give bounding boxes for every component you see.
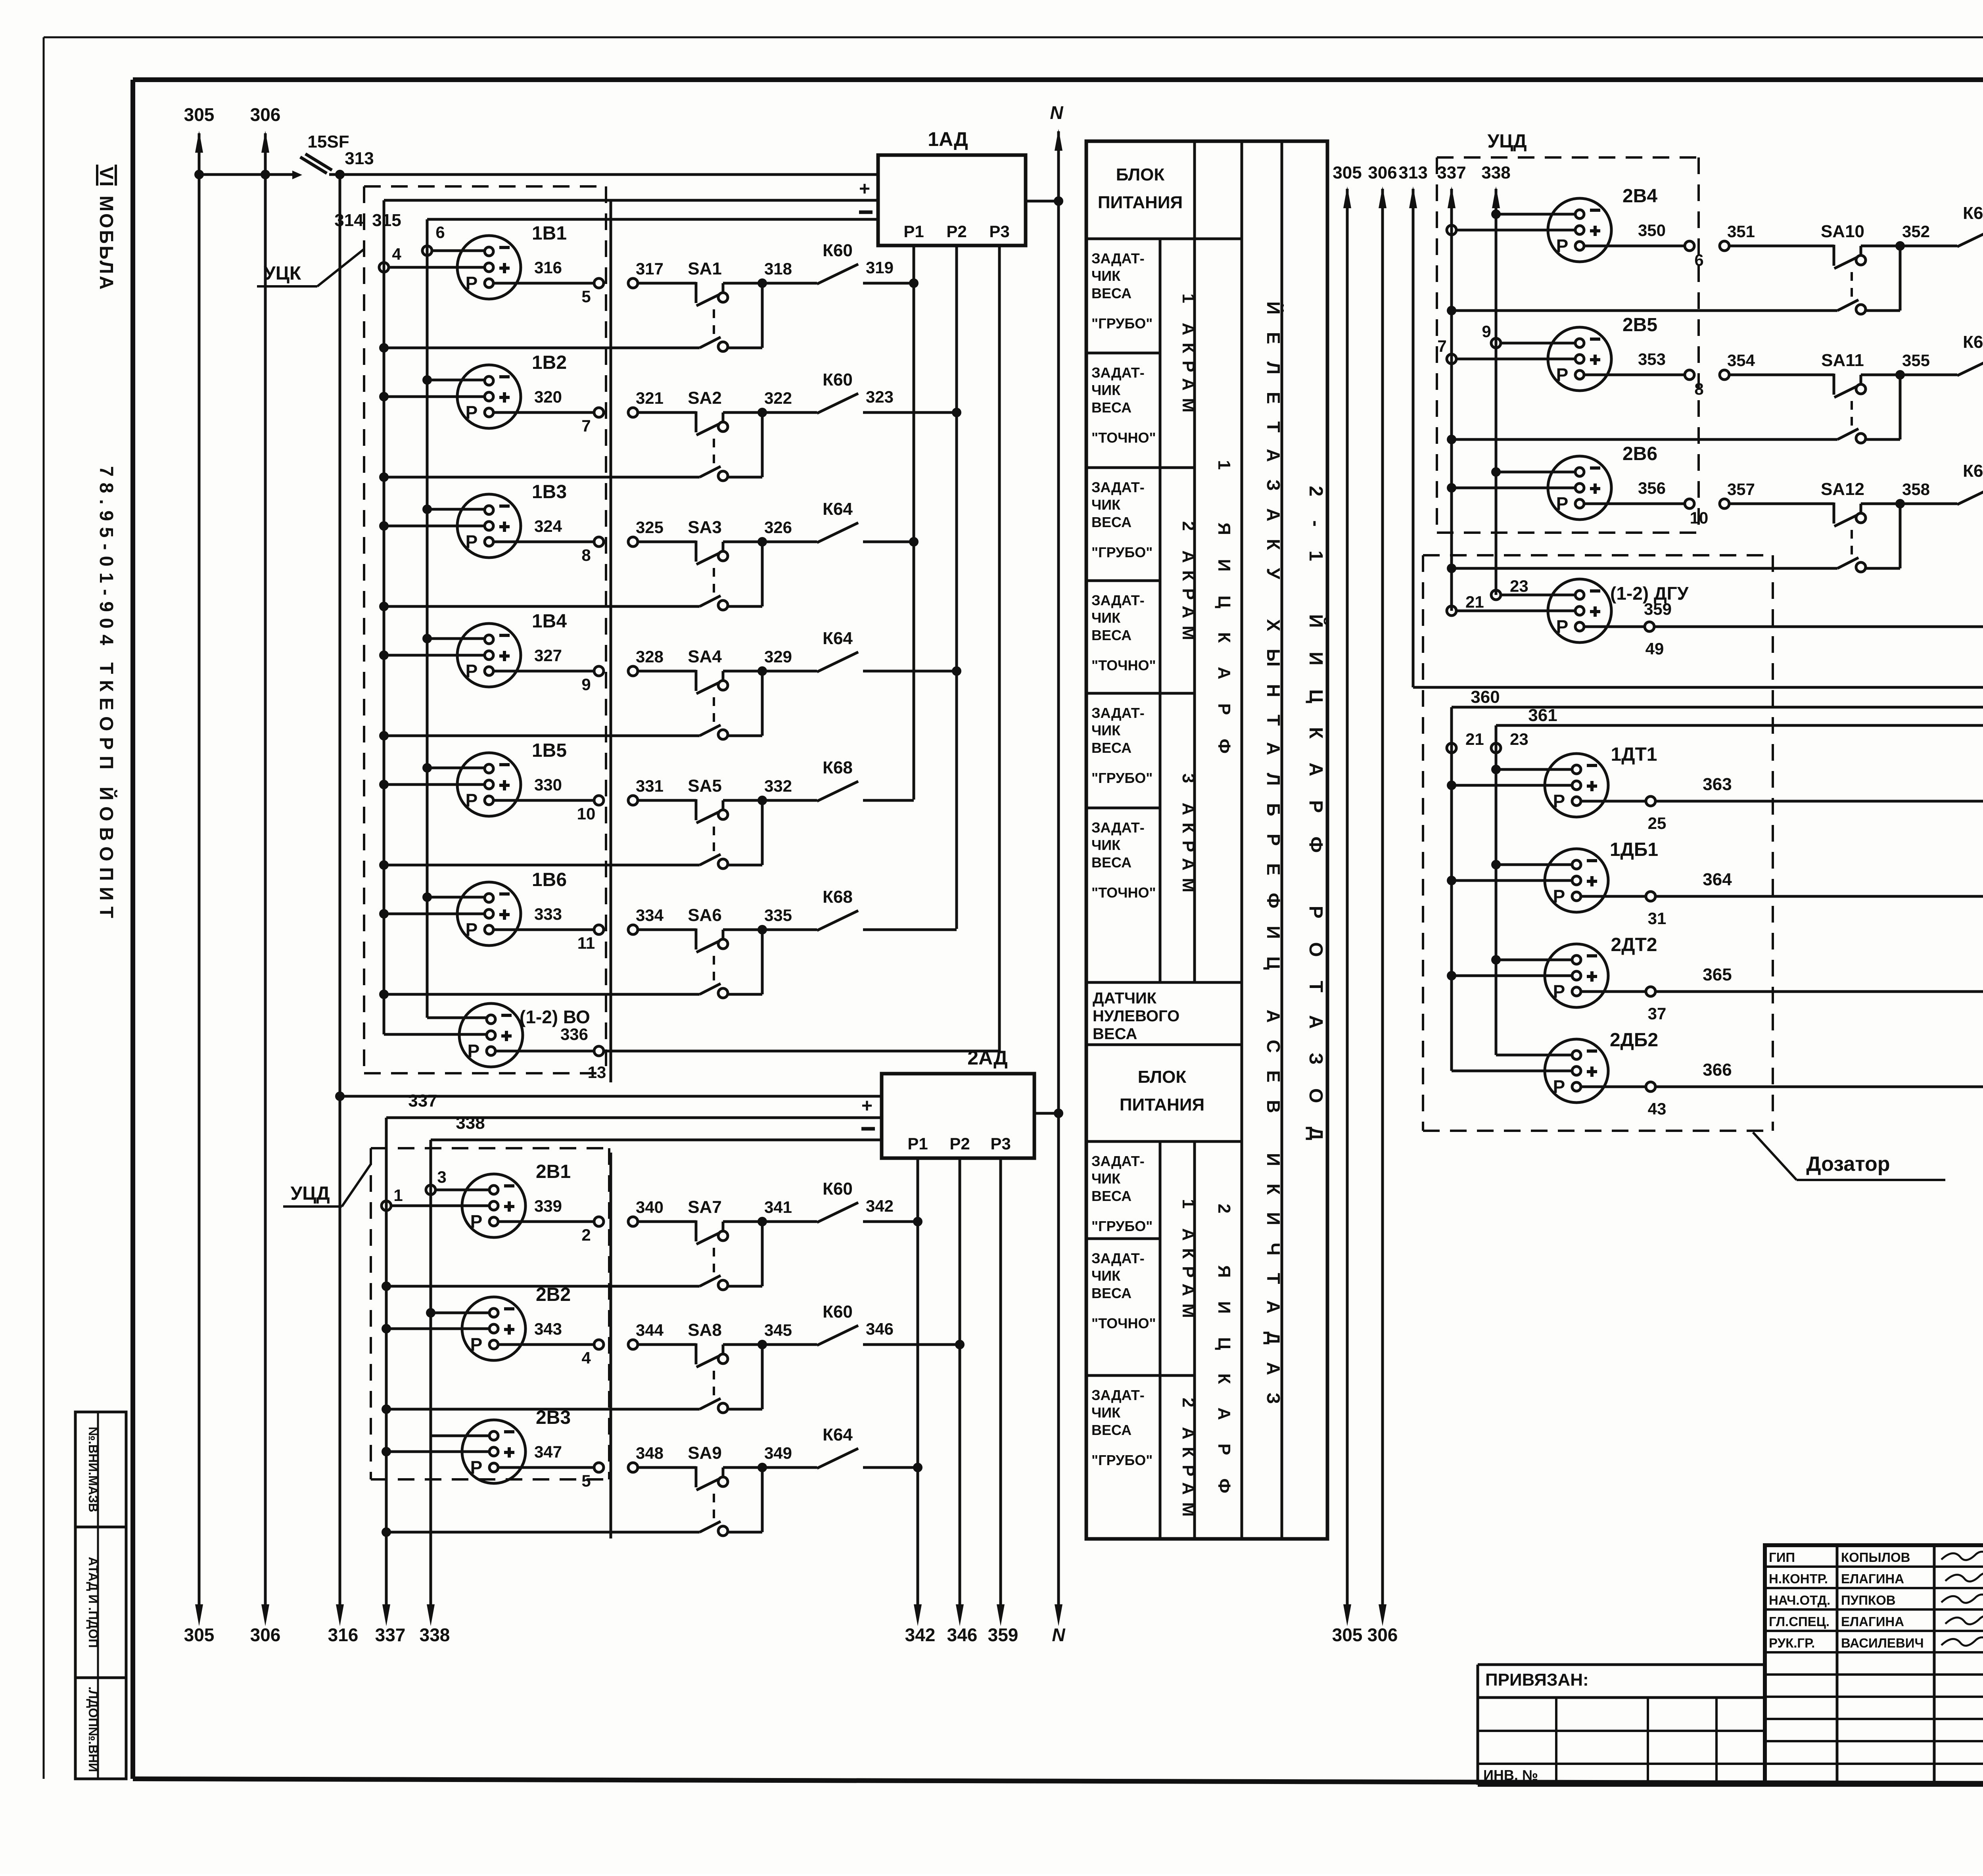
svg-text:306: 306 (1368, 163, 1397, 182)
svg-text:49: 49 (1645, 639, 1664, 658)
svg-text:ВЕСА: ВЕСА (1091, 1422, 1131, 1438)
svg-text:341: 341 (764, 1198, 792, 1216)
svg-text:РУК.ГР.: РУК.ГР. (1769, 1636, 1815, 1650)
svg-text:305: 305 (184, 104, 215, 125)
svg-text:ВЕСА: ВЕСА (1091, 854, 1131, 871)
svg-text:360: 360 (1471, 687, 1500, 707)
svg-text:ЧИК: ЧИК (1091, 1170, 1121, 1187)
svg-text:337: 337 (375, 1625, 406, 1645)
svg-text:ЧИК: ЧИК (1091, 837, 1121, 853)
svg-text:P1: P1 (903, 222, 924, 241)
svg-text:P: P (1553, 791, 1565, 811)
svg-text:354: 354 (1727, 351, 1755, 370)
svg-text:2В4: 2В4 (1622, 186, 1657, 207)
svg-text:359: 359 (988, 1625, 1018, 1645)
svg-text:350: 350 (1638, 221, 1666, 240)
svg-text:Дозатор: Дозатор (1806, 1153, 1890, 1176)
svg-text:SA6: SA6 (688, 905, 722, 925)
svg-text:P: P (1556, 616, 1569, 637)
svg-text:N: N (1050, 102, 1063, 123)
svg-text:336: 336 (560, 1025, 588, 1044)
svg-text:353: 353 (1638, 350, 1666, 368)
svg-text:4: 4 (581, 1348, 591, 1367)
svg-text:305: 305 (184, 1625, 215, 1645)
svg-text:7: 7 (1437, 337, 1446, 355)
svg-text:1АД: 1АД (928, 128, 968, 150)
svg-text:ИНВ. №: ИНВ. № (1483, 1767, 1538, 1783)
svg-text:320: 320 (534, 387, 562, 406)
svg-text:ВЕСА: ВЕСА (1091, 399, 1131, 416)
svg-text:23: 23 (1510, 577, 1528, 595)
svg-text:P: P (1556, 236, 1569, 256)
svg-text:2ДБ2: 2ДБ2 (1610, 1030, 1658, 1051)
svg-text:9: 9 (1482, 322, 1491, 341)
svg-text:P: P (470, 1211, 483, 1232)
svg-text:346: 346 (947, 1625, 978, 1645)
svg-text:ВЕСА: ВЕСА (1091, 1285, 1131, 1301)
svg-text:365: 365 (1703, 965, 1732, 984)
svg-text:9: 9 (581, 675, 591, 694)
svg-text:344: 344 (636, 1321, 664, 1339)
svg-text:305: 305 (1333, 163, 1362, 182)
svg-text:322: 322 (764, 389, 792, 407)
svg-text:351: 351 (1727, 222, 1755, 241)
svg-text:P: P (1556, 364, 1569, 385)
svg-text:К60: К60 (823, 370, 853, 389)
svg-text:25: 25 (1648, 814, 1667, 832)
svg-text:5: 5 (581, 287, 591, 306)
svg-text:328: 328 (636, 647, 664, 666)
svg-text:"ГРУБО": "ГРУБО" (1091, 770, 1153, 786)
svg-text:SA9: SA9 (688, 1443, 722, 1463)
svg-text:"ГРУБО": "ГРУБО" (1091, 544, 1153, 560)
svg-text:ЗАДАТ-: ЗАДАТ- (1091, 705, 1145, 721)
svg-text:P: P (1553, 886, 1565, 907)
svg-text:К64: К64 (823, 499, 853, 519)
svg-text:P2: P2 (946, 222, 967, 241)
svg-text:ЧИК: ЧИК (1091, 1404, 1121, 1421)
svg-text:355: 355 (1902, 351, 1930, 370)
svg-text:ПИТАНИЯ: ПИТАНИЯ (1098, 193, 1183, 212)
svg-text:326: 326 (764, 518, 792, 537)
svg-text:1В2: 1В2 (532, 352, 567, 373)
svg-text:К60: К60 (823, 241, 853, 260)
svg-text:P1: P1 (907, 1134, 928, 1153)
svg-text:2В1: 2В1 (536, 1161, 571, 1182)
svg-text:ВЕСА: ВЕСА (1091, 1188, 1131, 1204)
svg-text:БЛОК: БЛОК (1116, 165, 1165, 184)
svg-text:37: 37 (1648, 1004, 1667, 1023)
svg-text:ЕЛАГИНА: ЕЛАГИНА (1841, 1614, 1904, 1629)
svg-text:SA5: SA5 (688, 776, 722, 796)
svg-text:364: 364 (1703, 870, 1732, 889)
svg-text:К68: К68 (823, 887, 853, 907)
svg-text:313: 313 (345, 149, 374, 168)
svg-text:8: 8 (581, 546, 591, 564)
svg-text:P: P (468, 1041, 480, 1061)
svg-text:366: 366 (1703, 1060, 1732, 1080)
svg-text:SA1: SA1 (688, 259, 722, 278)
svg-text:SA12: SA12 (1821, 480, 1864, 499)
svg-text:К68: К68 (823, 758, 853, 777)
svg-text:2В6: 2В6 (1622, 443, 1657, 464)
svg-text:6: 6 (435, 223, 445, 242)
svg-text:306: 306 (250, 104, 281, 125)
svg-text:319: 319 (866, 258, 894, 277)
svg-text:.ЛДОП№.ВНИ: .ЛДОП№.ВНИ (86, 1686, 100, 1772)
svg-text:338: 338 (456, 1113, 485, 1133)
svg-text:ВЕСА: ВЕСА (1091, 740, 1131, 756)
svg-text:10: 10 (577, 804, 596, 823)
svg-text:330: 330 (534, 775, 562, 794)
svg-text:КОПЫЛОВ: КОПЫЛОВ (1841, 1550, 1910, 1565)
svg-text:ЕЛАГИНА: ЕЛАГИНА (1841, 1571, 1904, 1586)
svg-text:P: P (466, 402, 478, 423)
svg-text:5: 5 (581, 1471, 591, 1490)
svg-text:P: P (466, 531, 478, 552)
svg-text:327: 327 (534, 646, 562, 665)
svg-text:325: 325 (636, 518, 664, 537)
svg-text:1В5: 1В5 (532, 740, 567, 761)
svg-text:ЗАДАТ-: ЗАДАТ- (1091, 592, 1145, 608)
svg-text:1В3: 1В3 (532, 481, 567, 503)
svg-text:"ТОЧНО": "ТОЧНО" (1091, 884, 1156, 901)
svg-text:306: 306 (250, 1625, 281, 1645)
svg-text:P3: P3 (990, 1134, 1011, 1153)
svg-text:"ГРУБО": "ГРУБО" (1091, 1218, 1153, 1234)
svg-text:ЗАДАТ-: ЗАДАТ- (1091, 1387, 1145, 1403)
svg-text:334: 334 (636, 906, 664, 925)
svg-text:339: 339 (534, 1197, 562, 1215)
svg-text:2ДТ2: 2ДТ2 (1611, 934, 1657, 955)
svg-text:К60: К60 (823, 1302, 853, 1322)
svg-text:1В6: 1В6 (532, 869, 567, 890)
svg-text:43: 43 (1648, 1099, 1667, 1118)
svg-text:P: P (470, 1457, 483, 1478)
svg-text:358: 358 (1902, 480, 1930, 499)
svg-text:К64: К64 (1963, 203, 1983, 223)
svg-text:P: P (1553, 981, 1565, 1002)
svg-text:БЛОК: БЛОК (1138, 1067, 1187, 1087)
svg-text:ПРИВЯЗАН:: ПРИВЯЗАН: (1485, 1670, 1589, 1690)
svg-text:(1-2) ВО: (1-2) ВО (520, 1007, 590, 1027)
svg-text:343: 343 (534, 1320, 562, 1338)
svg-text:318: 318 (764, 259, 792, 278)
svg-text:349: 349 (764, 1444, 792, 1462)
svg-text:SA11: SA11 (1821, 351, 1864, 370)
svg-text:P: P (466, 919, 478, 940)
svg-text:345: 345 (764, 1321, 792, 1339)
svg-text:ЧИК: ЧИК (1091, 382, 1121, 398)
svg-text:К60: К60 (823, 1179, 853, 1199)
svg-text:P3: P3 (989, 222, 1009, 241)
svg-text:ЧИК: ЧИК (1091, 1268, 1121, 1284)
svg-text:SA10: SA10 (1821, 222, 1864, 241)
svg-text:P: P (466, 273, 478, 293)
svg-text:314: 314 (334, 211, 364, 230)
svg-text:4: 4 (392, 245, 401, 263)
svg-text:SA4: SA4 (688, 647, 722, 666)
svg-text:6: 6 (1694, 251, 1703, 269)
svg-text:P: P (466, 661, 478, 681)
svg-text:329: 329 (764, 647, 792, 666)
svg-text:2В2: 2В2 (536, 1284, 571, 1305)
svg-text:К64: К64 (823, 1425, 853, 1444)
svg-text:340: 340 (636, 1198, 664, 1216)
svg-text:SA7: SA7 (688, 1197, 722, 1217)
svg-text:АТАД И .ПДОП: АТАД И .ПДОП (86, 1557, 100, 1648)
svg-text:ВЕСА: ВЕСА (1093, 1025, 1137, 1043)
svg-text:К68: К68 (1963, 332, 1983, 352)
svg-text:ЧИК: ЧИК (1091, 497, 1121, 513)
svg-text:316: 316 (534, 258, 562, 277)
svg-text:"ТОЧНО": "ТОЧНО" (1091, 1315, 1156, 1331)
svg-text:337: 337 (408, 1091, 437, 1111)
svg-text:1В4: 1В4 (532, 611, 567, 632)
svg-text:305: 305 (1332, 1625, 1363, 1645)
svg-text:357: 357 (1727, 480, 1755, 499)
svg-text:342: 342 (866, 1197, 894, 1215)
svg-text:352: 352 (1902, 222, 1930, 241)
svg-text:+: + (861, 1095, 873, 1116)
svg-text:23: 23 (1510, 730, 1528, 748)
svg-text:15SF: 15SF (307, 132, 349, 152)
svg-text:332: 332 (764, 777, 792, 795)
svg-text:2: 2 (581, 1226, 591, 1244)
svg-text:ЗАДАТ-: ЗАДАТ- (1091, 1250, 1145, 1266)
svg-text:359: 359 (1644, 600, 1672, 618)
svg-text:ЧИК: ЧИК (1091, 268, 1121, 284)
svg-text:P: P (466, 790, 478, 811)
svg-text:"ТОЧНО": "ТОЧНО" (1091, 430, 1156, 446)
svg-text:1ДТ1: 1ДТ1 (1611, 744, 1657, 765)
svg-text:347: 347 (534, 1442, 562, 1461)
svg-text:361: 361 (1528, 706, 1557, 725)
svg-text:ЗАДАТ-: ЗАДАТ- (1091, 819, 1145, 836)
svg-text:313: 313 (1398, 163, 1427, 182)
svg-text:ВЕСА: ВЕСА (1091, 285, 1131, 301)
svg-text:10: 10 (1690, 508, 1709, 527)
svg-text:+: + (859, 178, 870, 199)
svg-text:VI МОБЬЛА: VI МОБЬЛА (96, 167, 117, 290)
svg-text:324: 324 (534, 517, 562, 535)
svg-text:321: 321 (636, 389, 664, 407)
svg-text:ЗАДАТ-: ЗАДАТ- (1091, 250, 1145, 267)
svg-text:338: 338 (420, 1625, 450, 1645)
svg-text:31: 31 (1648, 909, 1667, 928)
svg-text:315: 315 (372, 211, 401, 230)
svg-text:363: 363 (1703, 775, 1732, 794)
svg-text:ЧИК: ЧИК (1091, 722, 1121, 739)
svg-text:ГИП: ГИП (1769, 1550, 1795, 1565)
svg-text:К64: К64 (823, 629, 853, 648)
svg-text:ЗАДАТ-: ЗАДАТ- (1091, 479, 1145, 495)
svg-text:P: P (1556, 493, 1569, 514)
svg-text:323: 323 (866, 387, 894, 406)
svg-text:N: N (1052, 1625, 1065, 1645)
svg-text:317: 317 (636, 259, 664, 278)
svg-text:1: 1 (393, 1186, 403, 1205)
svg-text:342: 342 (905, 1625, 936, 1645)
svg-text:306: 306 (1367, 1625, 1398, 1645)
svg-text:13: 13 (588, 1063, 606, 1082)
svg-text:Н.КОНТР.: Н.КОНТР. (1769, 1571, 1828, 1586)
svg-text:P: P (1553, 1076, 1565, 1097)
svg-text:356: 356 (1638, 479, 1666, 497)
svg-text:11: 11 (577, 934, 595, 952)
svg-text:SA8: SA8 (688, 1320, 722, 1340)
svg-text:SA2: SA2 (688, 388, 722, 408)
svg-text:7: 7 (581, 416, 591, 435)
svg-text:P: P (470, 1334, 483, 1355)
svg-text:21: 21 (1465, 730, 1484, 748)
svg-text:ПУПКОВ: ПУПКОВ (1841, 1593, 1896, 1607)
svg-text:"ГРУБО": "ГРУБО" (1091, 1452, 1153, 1468)
svg-text:2АД: 2АД (967, 1047, 1007, 1069)
svg-text:ЗАДАТ-: ЗАДАТ- (1091, 1153, 1145, 1169)
svg-text:УЦД: УЦД (1487, 131, 1527, 152)
svg-text:ВЕСА: ВЕСА (1091, 514, 1131, 530)
svg-text:К68: К68 (1963, 461, 1983, 481)
svg-text:УЦД: УЦД (290, 1183, 330, 1204)
svg-text:1ДБ1: 1ДБ1 (1610, 839, 1658, 860)
svg-text:УЦК: УЦК (264, 263, 301, 284)
svg-text:SA3: SA3 (688, 518, 722, 537)
svg-text:2В5: 2В5 (1622, 315, 1657, 336)
svg-text:337: 337 (1437, 163, 1466, 182)
svg-text:ГЛ.СПЕЦ.: ГЛ.СПЕЦ. (1769, 1614, 1830, 1629)
svg-text:335: 335 (764, 906, 792, 925)
svg-text:НАЧ.ОТД.: НАЧ.ОТД. (1769, 1593, 1830, 1607)
svg-text:3: 3 (437, 1168, 446, 1186)
svg-text:331: 331 (636, 777, 664, 795)
svg-text:НУЛЕВОГО: НУЛЕВОГО (1093, 1007, 1179, 1025)
svg-text:ЧИК: ЧИК (1091, 610, 1121, 626)
svg-text:348: 348 (636, 1444, 664, 1462)
svg-text:ВЕСА: ВЕСА (1091, 627, 1131, 643)
svg-text:8: 8 (1694, 380, 1703, 398)
svg-text:ЗАДАТ-: ЗАДАТ- (1091, 364, 1145, 381)
svg-text:21: 21 (1465, 593, 1484, 611)
svg-text:"ГРУБО": "ГРУБО" (1091, 315, 1153, 332)
svg-text:333: 333 (534, 905, 562, 923)
svg-text:338: 338 (1481, 163, 1510, 182)
svg-text:№.ВНИ.МАЗВ: №.ВНИ.МАЗВ (86, 1427, 100, 1512)
svg-text:ПИТАНИЯ: ПИТАНИЯ (1120, 1095, 1204, 1114)
svg-text:"ТОЧНО": "ТОЧНО" (1091, 657, 1156, 673)
svg-text:P2: P2 (949, 1134, 970, 1153)
svg-text:2В3: 2В3 (536, 1407, 571, 1428)
svg-text:1В1: 1В1 (532, 223, 567, 244)
svg-text:316: 316 (328, 1625, 359, 1645)
svg-text:ДАТЧИК: ДАТЧИК (1093, 990, 1157, 1007)
svg-text:ВАСИЛЕВИЧ: ВАСИЛЕВИЧ (1841, 1636, 1924, 1650)
svg-text:346: 346 (866, 1320, 894, 1338)
